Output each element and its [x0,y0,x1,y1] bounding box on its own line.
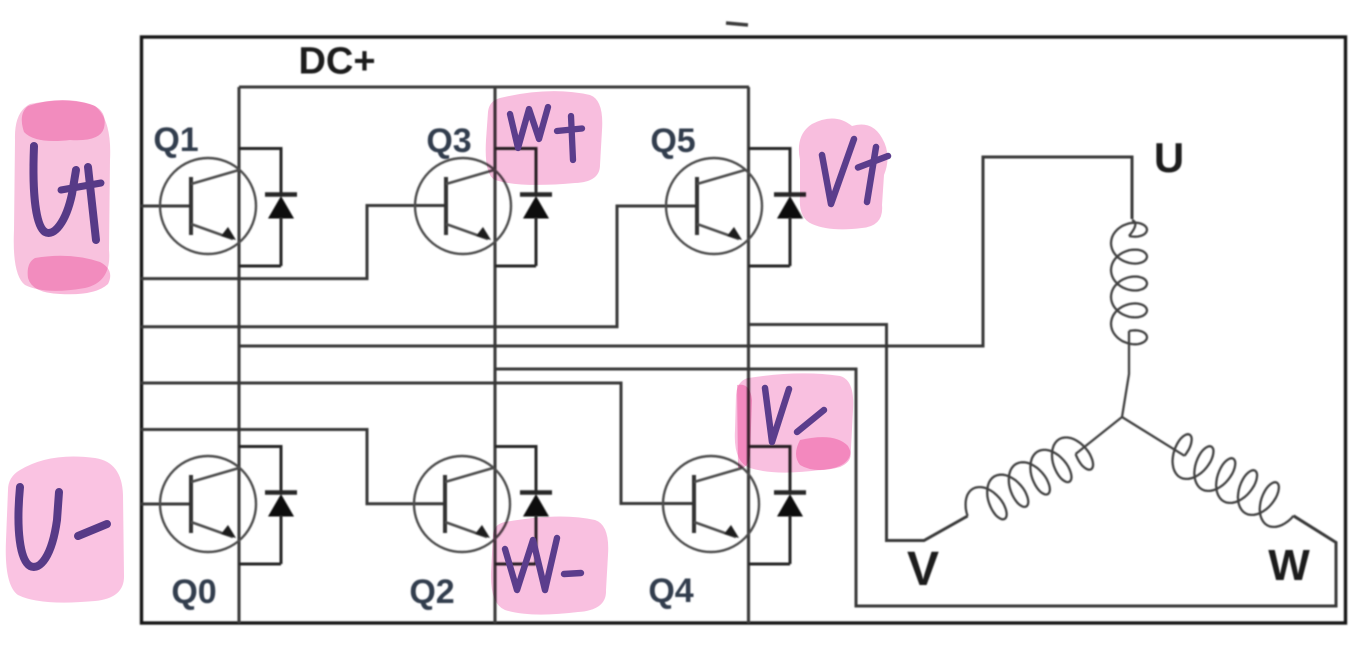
wire phase W [495,369,1336,606]
wire W coil to star point [1122,417,1185,456]
wire V coil to star point [1076,417,1122,454]
svg-text:Q2: Q2 [409,573,454,611]
highlighter V+ [799,118,888,229]
svg-text:V: V [907,543,939,596]
svg-text:Q1: Q1 [153,121,198,159]
highlighter V- [735,373,853,472]
wire phase V [749,325,968,541]
svg-text:Q4: Q4 [648,572,693,610]
winding W coil [1173,434,1294,527]
wire bus column2 [493,87,496,623]
diode of Q2 [495,447,552,565]
highlighter W+ [486,91,603,185]
wire bus column1 [237,87,240,623]
transistor Q0 [160,456,256,552]
highlighter U+ [14,100,110,294]
wire base lead Q0 [141,503,191,506]
svg-text:DC+: DC+ [298,41,375,83]
tick above top border [726,23,748,25]
diode of Q0 [239,447,297,565]
outer border frame [142,37,1346,623]
wire base drive Q5 [141,206,697,327]
winding V coil [966,438,1094,520]
diode of Q4 [749,447,807,565]
diode of Q1 [239,149,297,267]
wire bus column3 [747,87,750,623]
transistor Q5 [666,158,762,254]
wire phase U [239,157,1132,346]
winding U coil [1111,223,1147,345]
transistor Q1 [160,158,256,254]
wire base lead Q1 [141,205,191,208]
diode of Q5 [749,149,807,267]
wire U coil bottom to star point [1122,331,1129,417]
wire base drive Q3 [141,206,446,279]
svg-text:Q3: Q3 [426,122,471,160]
wire base drive Q2 [141,430,445,504]
svg-text:Q5: Q5 [650,122,695,160]
wire U coil top hook [1129,220,1135,236]
diode of Q3 [495,149,552,267]
svg-text:W: W [1268,541,1310,590]
highlighter W- [491,516,608,614]
wire base drive Q4 [141,383,694,504]
transistor Q3 [415,158,511,254]
wire DC+ rail [239,85,749,88]
svg-text:Q0: Q0 [171,573,216,611]
highlighter U- [6,457,124,603]
transistor Q4 [663,456,759,552]
svg-text:U: U [1154,134,1184,181]
transistor Q2 [414,456,510,552]
